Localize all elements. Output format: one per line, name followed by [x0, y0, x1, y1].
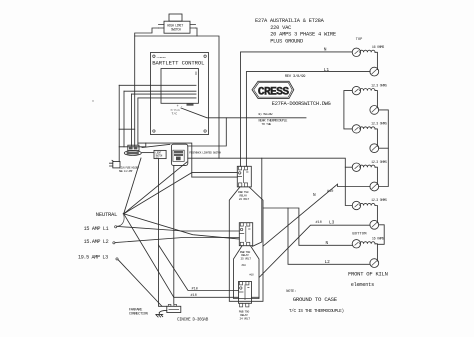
relay 1 feeder lower — [192, 176, 238, 178]
wire L3 run to element 5 — [260, 225, 370, 277]
plug connector — [110, 160, 121, 168]
wire connector to ground — [159, 310, 167, 312]
svg-text:220 VAC: 220 VAC — [270, 25, 291, 31]
node NEUTRAL — [123, 213, 125, 215]
kiln fuse holder oval — [124, 151, 141, 156]
svg-text:TO THE: TO THE — [262, 122, 272, 126]
wire jog — [119, 128, 135, 130]
svg-text:FRONT OF KILN: FRONT OF KILN — [348, 271, 388, 278]
svg-text:SEE 1/2 AMP: SEE 1/2 AMP — [119, 170, 133, 173]
wire from switch right down to outer box — [196, 28, 198, 36]
svg-text:20 AMPS 3 PHASE 4 WIRE: 20 AMPS 3 PHASE 4 WIRE — [270, 32, 336, 38]
svg-text:24 VOLT: 24 VOLT — [240, 317, 251, 320]
screw hole — [153, 130, 155, 132]
svg-text:#10: #10 — [192, 287, 198, 291]
wire diagonal to relay 3 feeder — [159, 245, 239, 291]
svg-text:#10: #10 — [249, 274, 254, 277]
screw hole — [204, 55, 206, 57]
node L1 — [115, 226, 117, 228]
svg-text:12.3 OHMS: 12.3 OHMS — [371, 122, 387, 126]
wire — [375, 167, 377, 184]
thermocouple pads — [187, 104, 194, 106]
bus wire along top right of elements — [219, 158, 352, 205]
wire from thermocouple bus down — [188, 118, 227, 146]
wire N diagonal to element 4 — [263, 184, 370, 246]
svg-text:E27FA-DOORSWITCH.DWG: E27FA-DOORSWITCH.DWG — [272, 101, 331, 107]
wire — [375, 244, 377, 261]
bus down right of funnel — [253, 158, 262, 246]
light switch box — [154, 150, 166, 159]
svg-text:12.3 OHMS: 12.3 OHMS — [371, 83, 387, 87]
screw hole — [153, 55, 155, 57]
wire L2 run to element 6 terminal B — [288, 208, 370, 264]
wire fuse to piggyback — [142, 144, 170, 147]
svg-text:CINCHE D-303AB: CINCHE D-303AB — [177, 318, 209, 322]
wire L1 — [246, 72, 370, 167]
svg-text:T/C IS THE THERMOCOUPLE): T/C IS THE THERMOCOUPLE) — [289, 309, 344, 314]
wire L1 node curve to neutral — [117, 215, 124, 226]
wire light switch to fuse — [142, 152, 154, 154]
thermocouple wire — [181, 108, 306, 118]
stub element 5 to short bus — [377, 225, 384, 245]
relay R2 — [239, 223, 252, 246]
wire down from line3 — [131, 94, 133, 147]
svg-text:25 VOLT: 25 VOLT — [241, 258, 252, 261]
wire — [375, 206, 377, 223]
svg-text:REV 3/8/99: REV 3/8/99 — [285, 74, 306, 79]
fuse block — [128, 145, 139, 150]
svg-text:NEUTRAL: NEUTRAL — [96, 211, 117, 218]
high limit switch — [164, 21, 190, 33]
relay 3 lower feeder — [174, 296, 239, 298]
svg-text:CRESS: CRESS — [258, 87, 289, 99]
element 3 terminal B — [370, 144, 379, 153]
svg-text:L3: L3 — [329, 221, 335, 226]
element 4 terminal B — [370, 182, 379, 191]
Bartlett control board outline — [151, 53, 209, 135]
svg-text:#4 RELAYS: #4 RELAYS — [157, 56, 167, 59]
svg-text:PIGGYBACK LIGHTED SWITCH: PIGGYBACK LIGHTED SWITCH — [189, 152, 221, 155]
wire bracket feeding elements 2 and 3 — [344, 91, 352, 129]
svg-text:PLUS GROUND: PLUS GROUND — [270, 39, 303, 45]
node L3 — [116, 258, 118, 260]
svg-text:#10: #10 — [242, 264, 247, 267]
svg-text:CONNECTION: CONNECTION — [129, 313, 148, 317]
wire neutral to relay feeder — [124, 173, 192, 214]
wire switch row to bus — [188, 157, 219, 159]
svg-text:T/C: T/C — [172, 112, 178, 116]
high limit switch cap — [169, 14, 182, 21]
wire from piggyback down — [173, 165, 175, 304]
svg-text:BOTTOM: BOTTOM — [352, 233, 367, 237]
wire neutral to relay 2 — [124, 214, 240, 239]
element 1 heating coil — [360, 50, 375, 52]
svg-text:B) YELLOW: B) YELLOW — [259, 112, 273, 116]
svg-text:#10: #10 — [327, 190, 333, 194]
svg-text:GROUND TO CASE: GROUND TO CASE — [293, 296, 338, 303]
svg-text:#10: #10 — [316, 221, 322, 225]
ground — [156, 313, 163, 317]
control line 2 — [124, 90, 196, 92]
svg-text:12.3 OHMS: 12.3 OHMS — [371, 198, 387, 202]
wire neutral to switch — [124, 162, 187, 214]
element 6 heating coil — [360, 242, 375, 244]
fuse row bus — [119, 143, 146, 147]
wire neutral down to bottom run — [124, 214, 174, 297]
stub element 3 to right bus — [379, 147, 389, 149]
control display box — [161, 69, 198, 104]
svg-text:BARTLETT CONTROL: BARTLETT CONTROL — [152, 60, 204, 67]
element 3 heating coil — [360, 127, 375, 129]
wire from light switch down — [159, 159, 167, 307]
wire neutral to fuse holder — [124, 158, 141, 214]
wire down from line4 — [137, 98, 139, 145]
wire down from line2 — [123, 91, 125, 147]
control line 1 — [119, 84, 196, 86]
element 4 heating coil — [360, 165, 375, 167]
svg-text:L2: L2 — [325, 260, 331, 265]
control line 3 — [132, 93, 197, 95]
element 2 heating coil — [360, 89, 375, 91]
element 5 terminal B — [370, 220, 379, 229]
display tick — [195, 72, 197, 76]
element 2 terminal B — [370, 106, 379, 115]
wire from switch left down to outer box — [135, 28, 159, 36]
funnel around relays 2 and 3 — [229, 187, 263, 301]
wire down from line1 — [118, 85, 120, 161]
element 6 terminal A — [352, 240, 360, 248]
svg-text:#10: #10 — [191, 294, 197, 298]
inner funnel around relay 3 — [234, 246, 260, 299]
wire — [375, 129, 377, 146]
wire L1 to relay 2 — [117, 226, 240, 231]
svg-text:SWITCH: SWITCH — [171, 27, 181, 31]
switch pin ticks left — [159, 25, 165, 29]
relay 3 feeder right stub — [252, 296, 260, 298]
element 1 terminal B — [370, 67, 379, 76]
svg-text:16 OHMS: 16 OHMS — [372, 45, 384, 49]
relay R1 — [237, 166, 251, 187]
speck — [92, 100, 93, 101]
svg-text:E27A AUSTRAILIA & ET28A: E27A AUSTRAILIA & ET28A — [255, 18, 325, 24]
switch pin ticks right — [190, 25, 196, 29]
element 6 terminal B — [370, 259, 379, 268]
wire N run to element 6 — [263, 208, 352, 245]
screw hole — [204, 130, 206, 132]
svg-text:16 OHMS: 16 OHMS — [372, 237, 384, 241]
svg-text:15 AMP L1: 15 AMP L1 — [84, 226, 109, 232]
svg-text:L1: L1 — [324, 67, 330, 73]
relay 1 feeder upper — [192, 172, 238, 174]
svg-text:elements: elements — [351, 282, 374, 288]
right bus joining elements 2 3 4 — [379, 110, 389, 187]
wire from piggyback area down to relay feeders — [138, 143, 192, 177]
svg-text:N: N — [313, 193, 316, 198]
element 1 terminal A — [352, 48, 360, 56]
wire — [375, 91, 377, 108]
cinch terminal connector — [167, 304, 181, 312]
wire N — [241, 52, 353, 166]
outer enclosure box — [135, 36, 219, 158]
svg-text:TOP: TOP — [356, 38, 362, 42]
wire L2 to relay 2 — [115, 238, 239, 243]
svg-text:15.AMP L2: 15.AMP L2 — [84, 239, 109, 245]
element 3 terminal A — [352, 125, 360, 133]
relay R3 — [239, 282, 252, 307]
svg-text:N: N — [326, 241, 329, 246]
element 5 terminal A — [352, 201, 360, 209]
svg-text:12.3 OHMS: 12.3 OHMS — [371, 160, 387, 164]
piggyback lighted switch — [171, 144, 187, 165]
element 5 heating coil — [360, 203, 375, 205]
control line 4 — [138, 97, 196, 99]
wire feed element 4 terminal A — [345, 166, 352, 168]
CRESS logo — [252, 81, 294, 98]
wire — [375, 52, 377, 69]
wire L3 to connector — [118, 260, 162, 307]
element 4 terminal A — [352, 163, 360, 171]
node L2 — [113, 242, 115, 244]
svg-text:19.5 AMP L3: 19.5 AMP L3 — [78, 255, 108, 261]
svg-text:24 VOLT: 24 VOLT — [239, 198, 250, 201]
svg-text:NOTE:: NOTE: — [286, 290, 296, 294]
element 2 terminal A — [352, 86, 360, 94]
